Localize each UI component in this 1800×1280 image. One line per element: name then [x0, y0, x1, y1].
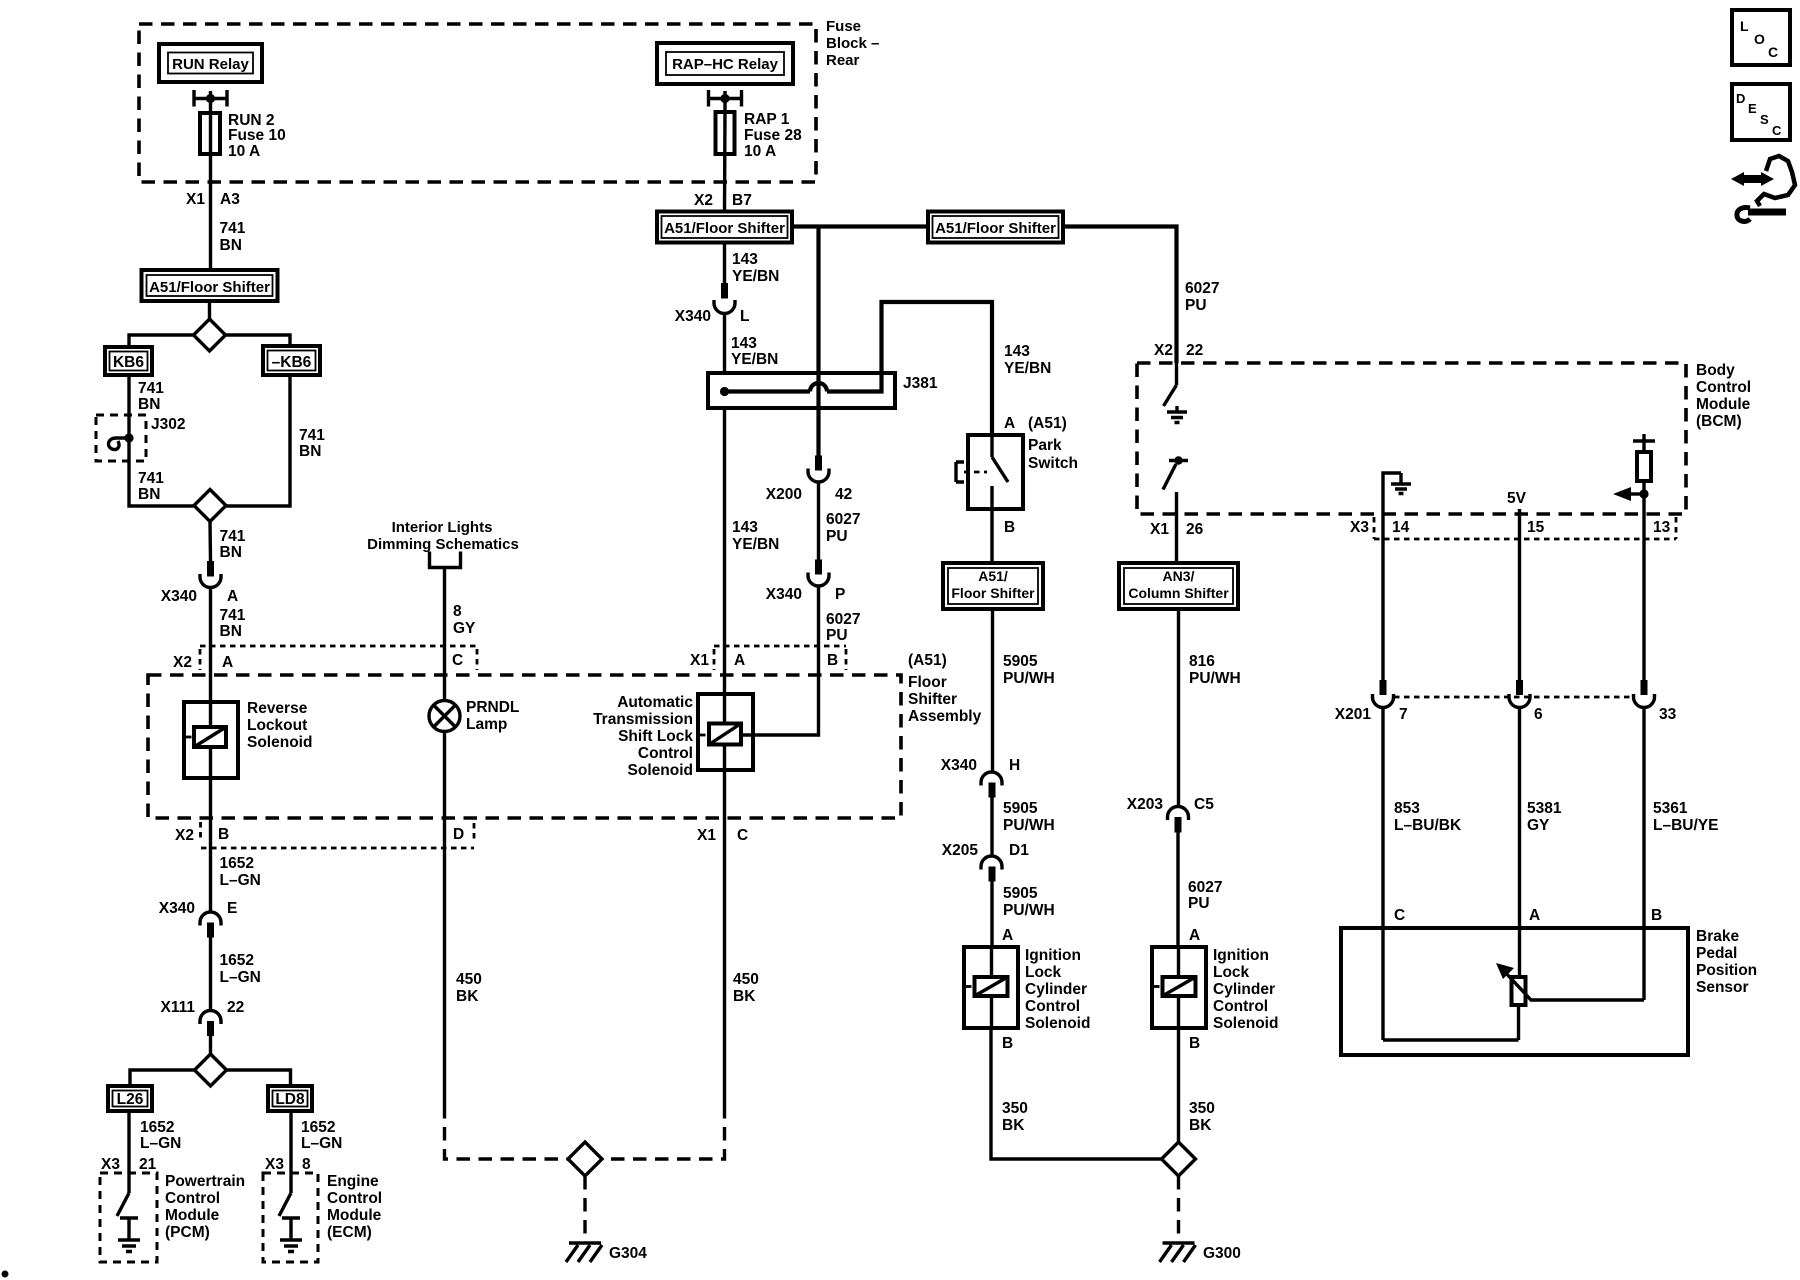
- svg-text:KB6: KB6: [113, 354, 144, 371]
- svg-text:L–GN: L–GN: [220, 872, 261, 889]
- svg-text:5905: 5905: [1003, 885, 1038, 902]
- svg-text:BN: BN: [220, 544, 242, 561]
- svg-text:450: 450: [456, 971, 482, 988]
- svg-text:X340: X340: [161, 588, 197, 605]
- svg-text:C: C: [452, 652, 463, 669]
- svg-text:X340: X340: [159, 900, 195, 917]
- svg-text:GY: GY: [453, 620, 476, 637]
- svg-text:C: C: [1768, 44, 1778, 60]
- svg-text:X340: X340: [766, 586, 802, 603]
- svg-text:D: D: [453, 826, 464, 843]
- svg-text:LD8: LD8: [275, 1091, 305, 1108]
- svg-text:(A51): (A51): [1028, 415, 1067, 432]
- svg-text:6: 6: [1534, 706, 1543, 723]
- svg-text:–KB6: –KB6: [272, 354, 312, 371]
- svg-text:Cylinder: Cylinder: [1213, 981, 1275, 998]
- svg-text:B: B: [1004, 519, 1015, 536]
- svg-text:Transmission: Transmission: [593, 711, 693, 728]
- svg-text:C: C: [1772, 123, 1782, 138]
- svg-text:RAP–HC Relay: RAP–HC Relay: [672, 56, 779, 73]
- svg-text:Module: Module: [327, 1207, 382, 1224]
- svg-text:Lock: Lock: [1213, 964, 1250, 981]
- svg-text:33: 33: [1659, 706, 1677, 723]
- svg-text:5V: 5V: [1507, 490, 1527, 507]
- svg-text:BN: BN: [299, 443, 321, 460]
- svg-text:Sensor: Sensor: [1696, 979, 1749, 996]
- svg-text:BK: BK: [1189, 1117, 1212, 1134]
- svg-text:YE/BN: YE/BN: [731, 351, 778, 368]
- svg-text:350: 350: [1189, 1100, 1215, 1117]
- svg-text:A51/Floor Shifter: A51/Floor Shifter: [664, 220, 785, 237]
- svg-text:Fuse 10: Fuse 10: [228, 127, 286, 144]
- svg-text:Control: Control: [1213, 998, 1268, 1015]
- svg-text:1652: 1652: [140, 1119, 174, 1136]
- svg-text:PU: PU: [1185, 297, 1207, 314]
- svg-text:PU/WH: PU/WH: [1003, 817, 1055, 834]
- svg-text:741: 741: [220, 220, 246, 237]
- svg-text:BN: BN: [220, 237, 242, 254]
- svg-text:1652: 1652: [220, 855, 254, 872]
- svg-text:143: 143: [731, 335, 757, 352]
- svg-text:13: 13: [1653, 519, 1671, 536]
- svg-text:Lamp: Lamp: [466, 716, 507, 733]
- svg-text:5361: 5361: [1653, 800, 1688, 817]
- svg-text:Fuse 28: Fuse 28: [744, 127, 802, 144]
- svg-text:Control: Control: [1696, 379, 1751, 396]
- svg-text:B: B: [1002, 1035, 1013, 1052]
- svg-text:L–GN: L–GN: [301, 1135, 342, 1152]
- svg-text:H: H: [1009, 757, 1020, 774]
- svg-text:Shift Lock: Shift Lock: [618, 728, 693, 745]
- svg-text:X1: X1: [697, 827, 716, 844]
- svg-text:X340: X340: [941, 757, 977, 774]
- svg-text:Module: Module: [165, 1207, 220, 1224]
- svg-text:Control: Control: [638, 745, 693, 762]
- svg-text:10 A: 10 A: [744, 143, 776, 160]
- svg-text:Powertrain: Powertrain: [165, 1173, 245, 1190]
- svg-text:Solenoid: Solenoid: [1025, 1015, 1090, 1032]
- svg-text:Rear: Rear: [826, 52, 860, 69]
- svg-text:X2: X2: [173, 654, 192, 671]
- svg-text:Reverse: Reverse: [247, 700, 308, 717]
- svg-text:B: B: [218, 826, 229, 843]
- svg-text:X1: X1: [1150, 521, 1169, 538]
- svg-text:5905: 5905: [1003, 800, 1038, 817]
- svg-text:Solenoid: Solenoid: [628, 762, 693, 779]
- svg-text:L26: L26: [117, 1091, 144, 1108]
- svg-text:816: 816: [1189, 653, 1215, 670]
- svg-text:B: B: [1189, 1035, 1200, 1052]
- svg-text:Lockout: Lockout: [247, 717, 307, 734]
- svg-text:741: 741: [138, 380, 164, 397]
- svg-text:L–BU/YE: L–BU/YE: [1653, 817, 1718, 834]
- svg-text:Lock: Lock: [1025, 964, 1062, 981]
- svg-text:B7: B7: [732, 192, 752, 209]
- svg-text:PU/WH: PU/WH: [1003, 902, 1055, 919]
- svg-text:A: A: [1529, 907, 1540, 924]
- svg-text:Body: Body: [1696, 362, 1735, 379]
- svg-text:8: 8: [453, 603, 462, 620]
- svg-text:(A51): (A51): [908, 652, 947, 669]
- svg-text:(BCM): (BCM): [1696, 413, 1742, 430]
- svg-text:C5: C5: [1194, 796, 1214, 813]
- svg-text:X2: X2: [1154, 342, 1173, 359]
- svg-text:A: A: [1004, 415, 1015, 432]
- svg-text:C: C: [1394, 907, 1405, 924]
- svg-text:X340: X340: [675, 308, 711, 325]
- svg-text:6027: 6027: [826, 611, 860, 628]
- svg-text:O: O: [1754, 31, 1765, 47]
- svg-text:741: 741: [220, 528, 246, 545]
- svg-text:Switch: Switch: [1028, 455, 1078, 472]
- svg-text:350: 350: [1002, 1100, 1028, 1117]
- svg-text:21: 21: [139, 1156, 157, 1173]
- svg-text:14: 14: [1392, 519, 1410, 536]
- svg-text:Cylinder: Cylinder: [1025, 981, 1087, 998]
- svg-text:G300: G300: [1203, 1245, 1241, 1262]
- svg-text:L: L: [740, 308, 749, 325]
- svg-text:Assembly: Assembly: [908, 708, 982, 725]
- svg-text:Ignition: Ignition: [1025, 947, 1081, 964]
- svg-text:5381: 5381: [1527, 800, 1562, 817]
- svg-text:G304: G304: [609, 1245, 647, 1262]
- svg-text:143: 143: [732, 519, 758, 536]
- svg-text:Park: Park: [1028, 437, 1062, 454]
- svg-text:X111: X111: [161, 999, 196, 1016]
- svg-text:42: 42: [835, 486, 852, 503]
- svg-text:Position: Position: [1696, 962, 1757, 979]
- svg-text:PU/WH: PU/WH: [1003, 670, 1055, 687]
- svg-text:Brake: Brake: [1696, 928, 1739, 945]
- svg-text:J381: J381: [903, 375, 938, 392]
- svg-text:A3: A3: [220, 191, 240, 208]
- svg-text:22: 22: [1186, 342, 1203, 359]
- svg-text:AN3/: AN3/: [1163, 568, 1195, 584]
- svg-text:BK: BK: [456, 988, 479, 1005]
- svg-text:C: C: [737, 827, 748, 844]
- svg-text:PRNDL: PRNDL: [466, 699, 519, 716]
- svg-text:8: 8: [302, 1156, 311, 1173]
- svg-text:S: S: [1760, 112, 1769, 127]
- svg-text:PU: PU: [826, 627, 848, 644]
- svg-text:A: A: [734, 652, 745, 669]
- svg-text:L–BU/BK: L–BU/BK: [1394, 817, 1462, 834]
- svg-text:22: 22: [227, 999, 244, 1016]
- svg-text:Module: Module: [1696, 396, 1751, 413]
- svg-text:P: P: [835, 586, 845, 603]
- svg-text:PU/WH: PU/WH: [1189, 670, 1241, 687]
- svg-text:6027: 6027: [1188, 879, 1222, 896]
- svg-text:10 A: 10 A: [228, 143, 260, 160]
- svg-text:6027: 6027: [1185, 280, 1219, 297]
- svg-text:Floor Shifter: Floor Shifter: [951, 585, 1035, 601]
- svg-text:1652: 1652: [220, 952, 254, 969]
- svg-text:(ECM): (ECM): [327, 1224, 372, 1241]
- svg-text:(PCM): (PCM): [165, 1224, 210, 1241]
- svg-text:143: 143: [732, 251, 758, 268]
- svg-text:Solenoid: Solenoid: [1213, 1015, 1278, 1032]
- svg-text:D1: D1: [1009, 842, 1029, 859]
- svg-text:Pedal: Pedal: [1696, 945, 1737, 962]
- svg-text:Fuse: Fuse: [826, 18, 861, 35]
- svg-text:BN: BN: [138, 396, 160, 413]
- svg-text:X2: X2: [175, 827, 194, 844]
- svg-text:L–GN: L–GN: [140, 1135, 181, 1152]
- svg-text:143: 143: [1004, 343, 1030, 360]
- svg-text:A: A: [227, 588, 238, 605]
- svg-text:15: 15: [1527, 519, 1545, 536]
- svg-text:Control: Control: [1025, 998, 1080, 1015]
- svg-text:X201: X201: [1335, 706, 1372, 723]
- svg-text:1652: 1652: [301, 1119, 335, 1136]
- svg-text:B: B: [827, 652, 838, 669]
- svg-text:E: E: [227, 900, 237, 917]
- svg-text:Automatic: Automatic: [617, 694, 693, 711]
- svg-text:RAP 1: RAP 1: [744, 111, 790, 128]
- svg-text:RUN Relay: RUN Relay: [172, 56, 249, 73]
- svg-text:BK: BK: [1002, 1117, 1025, 1134]
- svg-text:PU: PU: [826, 528, 848, 545]
- svg-text:E: E: [1748, 101, 1757, 116]
- svg-text:Block –: Block –: [826, 35, 879, 52]
- svg-text:YE/BN: YE/BN: [732, 536, 779, 553]
- svg-text:7: 7: [1399, 706, 1408, 723]
- svg-text:YE/BN: YE/BN: [732, 268, 779, 285]
- svg-text:A: A: [1189, 927, 1200, 944]
- svg-text:L: L: [1740, 18, 1749, 34]
- svg-text:741: 741: [299, 427, 325, 444]
- svg-text:BK: BK: [733, 988, 756, 1005]
- svg-text:B: B: [1651, 907, 1662, 924]
- svg-text:BN: BN: [220, 623, 242, 640]
- svg-text:853: 853: [1394, 800, 1420, 817]
- svg-text:A: A: [222, 654, 233, 671]
- svg-text:26: 26: [1186, 521, 1204, 538]
- svg-text:X205: X205: [942, 842, 979, 859]
- svg-text:6027: 6027: [826, 511, 860, 528]
- svg-text:D: D: [1736, 91, 1745, 106]
- svg-text:L–GN: L–GN: [220, 969, 261, 986]
- svg-text:450: 450: [733, 971, 759, 988]
- svg-text:X3: X3: [1350, 519, 1369, 536]
- svg-text:X2: X2: [694, 192, 713, 209]
- svg-text:Dimming Schematics: Dimming Schematics: [367, 536, 519, 553]
- svg-text:741: 741: [138, 470, 164, 487]
- svg-text:X200: X200: [766, 486, 802, 503]
- svg-text:Floor: Floor: [908, 674, 947, 691]
- svg-text:X1: X1: [690, 652, 709, 669]
- svg-text:A51/Floor Shifter: A51/Floor Shifter: [149, 279, 270, 296]
- svg-text:Engine: Engine: [327, 1173, 379, 1190]
- svg-text:Ignition: Ignition: [1213, 947, 1269, 964]
- svg-text:X203: X203: [1127, 796, 1164, 813]
- svg-text:YE/BN: YE/BN: [1004, 360, 1051, 377]
- svg-text:GY: GY: [1527, 817, 1550, 834]
- svg-text:Control: Control: [165, 1190, 220, 1207]
- svg-text:A51/Floor Shifter: A51/Floor Shifter: [935, 220, 1056, 237]
- svg-text:X3: X3: [101, 1156, 120, 1173]
- svg-text:Column Shifter: Column Shifter: [1128, 585, 1229, 601]
- svg-text:PU: PU: [1188, 895, 1210, 912]
- svg-text:5905: 5905: [1003, 653, 1038, 670]
- svg-text:A51/: A51/: [978, 568, 1008, 584]
- svg-text:Interior Lights: Interior Lights: [392, 519, 493, 536]
- svg-text:X1: X1: [186, 191, 205, 208]
- svg-text:J302: J302: [151, 416, 185, 433]
- svg-text:Solenoid: Solenoid: [247, 734, 312, 751]
- svg-text:741: 741: [220, 607, 246, 624]
- svg-text:X3: X3: [265, 1156, 284, 1173]
- svg-text:BN: BN: [138, 486, 160, 503]
- svg-text:Control: Control: [327, 1190, 382, 1207]
- svg-text:A: A: [1002, 927, 1013, 944]
- svg-text:Shifter: Shifter: [908, 691, 957, 708]
